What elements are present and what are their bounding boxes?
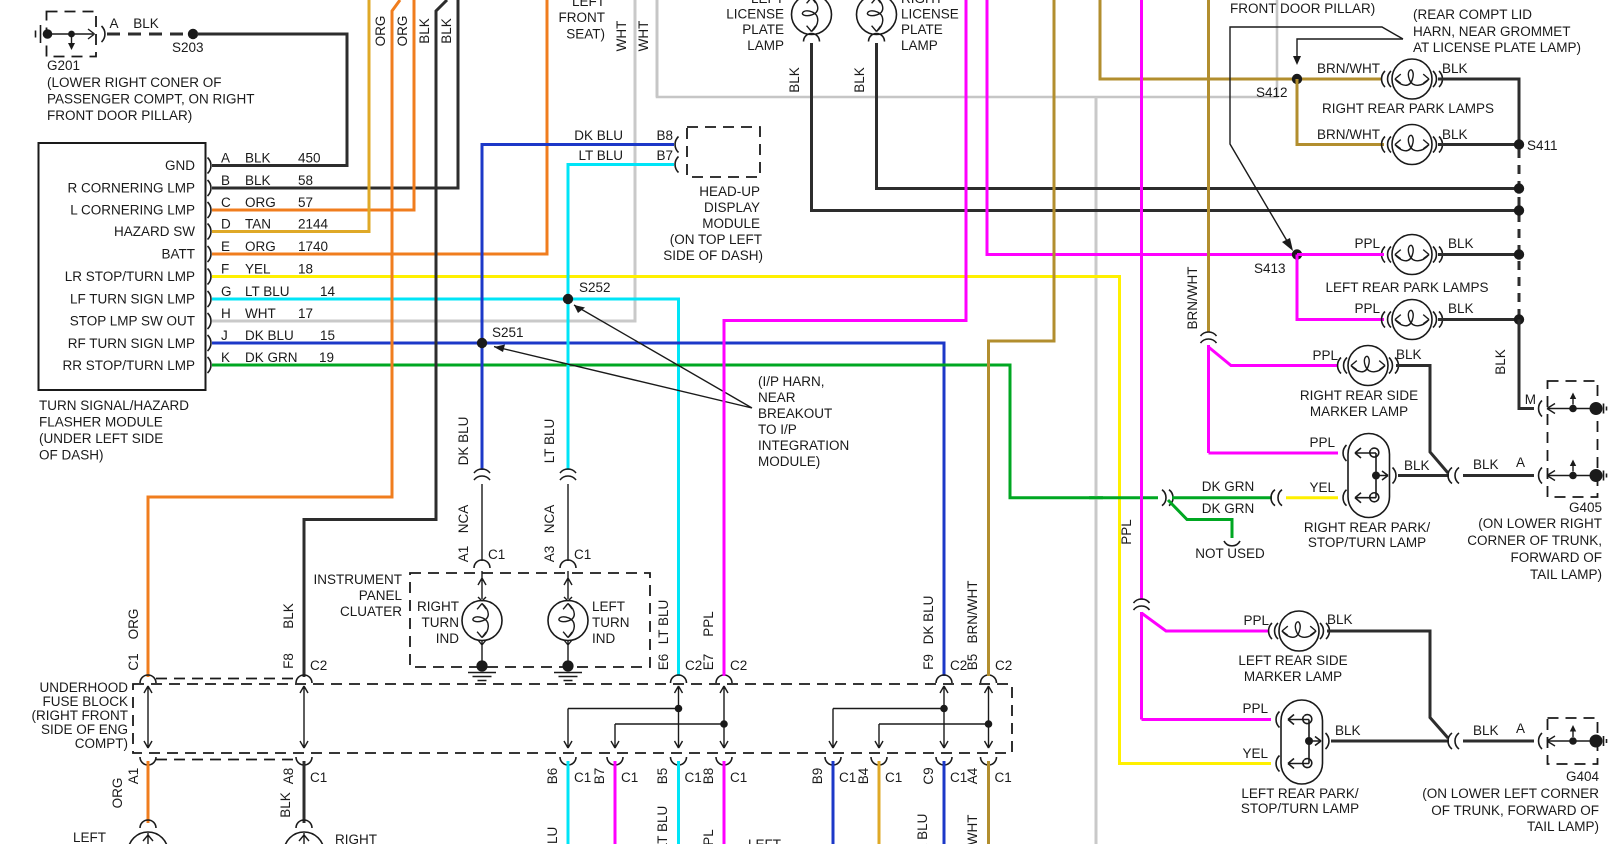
pin B	[208, 173, 314, 196]
wire TAN 2144 (pin D)	[212, 0, 369, 232]
wire PPL (to E7 via jog)	[724, 0, 966, 676]
svg-text:BRN/WHT: BRN/WHT	[965, 581, 980, 644]
svg-text:B7: B7	[656, 148, 673, 163]
svg-text:ORG: ORG	[245, 195, 276, 210]
wire ORG (underhood C1 feed)	[148, 0, 400, 677]
wire BLK (lamp to G404 A)	[1331, 723, 1449, 741]
ground G405	[1467, 381, 1606, 582]
lamp left rear side marker	[1238, 611, 1352, 684]
pin E7 C2	[701, 611, 747, 683]
svg-text:A8: A8	[281, 768, 296, 785]
svg-text:M: M	[1525, 392, 1536, 407]
instrument panel cluster box	[314, 572, 651, 667]
svg-text:PPL: PPL	[1354, 236, 1380, 251]
svg-text:BLK: BLK	[1404, 458, 1430, 473]
pin B5 C2	[965, 581, 1012, 684]
wire A BLK (G201 to S203, dashed)	[107, 16, 188, 34]
svg-text:LEFT: LEFT	[592, 599, 625, 614]
svg-text:RIGHT REAR PARK LAMPS: RIGHT REAR PARK LAMPS	[1322, 101, 1494, 116]
wire BLK (S411 ground chain, dashed)	[1518, 149, 1521, 317]
wire crossing overlays	[628, 275, 1103, 278]
wire BLK (lamp1 to S411)	[1438, 79, 1519, 141]
junction dots inside fuse block	[675, 705, 683, 713]
wire YEL (to lamp)	[1286, 496, 1338, 499]
wire DK GRN (not used branch)	[1168, 500, 1232, 538]
ground (right turn ind)	[468, 660, 496, 680]
svg-text:PPL: PPL	[701, 829, 716, 844]
lamp right license plate	[852, 0, 959, 93]
wire DK GRN 19 (pin K)	[212, 365, 1158, 498]
svg-text:C1: C1	[126, 653, 141, 670]
svg-text:F8: F8	[281, 653, 296, 669]
svg-text:A1: A1	[126, 768, 141, 785]
svg-text:BLK: BLK	[1327, 612, 1353, 627]
wire PPL (to left rear side marker)	[1142, 612, 1270, 720]
svg-text:LICENSE: LICENSE	[901, 7, 959, 22]
svg-text:ORG: ORG	[110, 778, 125, 809]
svg-text:COMPT): COMPT)	[75, 736, 128, 751]
pin B8 C1 bottom	[701, 757, 747, 844]
svg-text:PPL: PPL	[1312, 348, 1338, 363]
svg-text:ORG: ORG	[373, 16, 388, 47]
wire DK GRN (continue)	[1172, 496, 1272, 499]
svg-text:RF TURN SIGN LMP: RF TURN SIGN LMP	[68, 336, 195, 351]
svg-text:DK BLU: DK BLU	[456, 417, 471, 466]
wire BLK (to right park lamp)	[303, 761, 306, 823]
svg-text:STOP LMP SW OUT: STOP LMP SW OUT	[70, 314, 195, 329]
svg-text:E6: E6	[656, 654, 671, 671]
underhood fuse block	[32, 680, 1013, 753]
svg-text:C1: C1	[621, 770, 638, 785]
junction (left license BLK)	[1514, 205, 1524, 215]
svg-text:G405: G405	[1569, 500, 1602, 515]
svg-text:B7: B7	[592, 768, 607, 785]
svg-text:LT BLU: LT BLU	[245, 284, 290, 299]
svg-text:(RIGHT FRONT: (RIGHT FRONT	[32, 708, 129, 723]
svg-text:PPL: PPL	[1309, 435, 1335, 450]
pin E	[208, 239, 329, 262]
svg-text:FLASHER MODULE: FLASHER MODULE	[39, 415, 163, 430]
wire BLK (side marker to junction)	[1327, 631, 1448, 738]
lamp left rear park/stop/turn	[1241, 700, 1359, 816]
wire ORG (to left park lamp)	[147, 761, 150, 823]
inline break (LT BLU to NCA)	[560, 469, 576, 480]
svg-text:TAIL LAMP): TAIL LAMP)	[1527, 819, 1599, 834]
wire PPL (to right rear park/stop/turn)	[1209, 452, 1339, 455]
inline break (BRN/WHT to PPL rear)	[1201, 332, 1217, 343]
wire PPL B7	[614, 761, 617, 844]
lamp left rear park 2	[1354, 300, 1473, 340]
svg-text:A3: A3	[542, 546, 557, 563]
pin H	[208, 306, 314, 329]
svg-text:SIDE OF DASH): SIDE OF DASH)	[663, 248, 763, 263]
wire DK BLU 15 (pin J)	[212, 343, 944, 676]
svg-text:FRONT: FRONT	[559, 10, 606, 25]
svg-text:LT BLU: LT BLU	[545, 827, 560, 844]
ground G201	[36, 12, 255, 124]
wire PPL (to left rear park/stop/turn)	[1142, 718, 1272, 721]
svg-text:OF TRUNK, FORWARD OF: OF TRUNK, FORWARD OF	[1431, 803, 1599, 818]
svg-text:DK BLU: DK BLU	[245, 328, 294, 343]
svg-text:MARKER LAMP: MARKER LAMP	[1310, 404, 1408, 419]
svg-text:BLK: BLK	[245, 151, 271, 166]
svg-text:B5: B5	[965, 654, 980, 671]
svg-text:R CORNERING LMP: R CORNERING LMP	[67, 181, 195, 196]
svg-text:HEAD-UP: HEAD-UP	[699, 184, 760, 199]
svg-text:BLK: BLK	[417, 18, 432, 44]
wire BLK 450 (S203 to pin A)	[197, 34, 347, 166]
pin A	[208, 151, 321, 174]
callout (rear compt lid harn, near grommet at license plate lamp)	[1230, 7, 1581, 251]
svg-text:C: C	[221, 195, 231, 210]
wire BRN/WHT (S412 to lamp2)	[1297, 79, 1384, 145]
wire PPL (to S413)	[987, 0, 1293, 255]
svg-text:C1: C1	[574, 770, 591, 785]
pin D	[208, 217, 329, 240]
svg-text:OF DASH): OF DASH)	[39, 448, 104, 463]
svg-text:RR STOP/TURN LMP: RR STOP/TURN LMP	[62, 358, 195, 373]
svg-text:LAMP: LAMP	[901, 38, 938, 53]
not used terminal	[1195, 541, 1265, 561]
svg-text:DK BLU: DK BLU	[574, 128, 623, 143]
lamp right rear park/stop/turn	[1304, 434, 1431, 551]
svg-text:RIGHT: RIGHT	[901, 0, 943, 6]
svg-text:LEFT REAR SIDE: LEFT REAR SIDE	[1238, 653, 1347, 668]
wire BRN/WHT (to S412)	[1100, 0, 1382, 79]
svg-text:PPL: PPL	[1119, 519, 1134, 545]
svg-text:ORG: ORG	[126, 609, 141, 640]
lamp right turn indicator	[417, 571, 502, 662]
svg-text:PPL: PPL	[701, 611, 716, 637]
svg-text:TURN SIGNAL/HAZARD: TURN SIGNAL/HAZARD	[39, 398, 189, 413]
svg-text:1740: 1740	[298, 239, 328, 254]
svg-text:RIGHT REAR SIDE: RIGHT REAR SIDE	[1300, 388, 1418, 403]
pin B6 C1 bottom	[545, 757, 591, 844]
svg-text:LT BLU: LT BLU	[655, 806, 670, 844]
wire DK BLU C9	[943, 761, 946, 844]
lamp left front park (cut)	[73, 820, 168, 844]
svg-text:B8: B8	[701, 768, 716, 785]
svg-text:YEL: YEL	[1309, 480, 1335, 495]
svg-text:E7: E7	[701, 654, 716, 671]
svg-text:ORG: ORG	[395, 16, 410, 47]
svg-text:LF TURN SIGN LMP: LF TURN SIGN LMP	[70, 292, 195, 307]
svg-text:LAMP: LAMP	[747, 38, 784, 53]
svg-text:NEAR: NEAR	[758, 390, 796, 405]
inline break (BLK)	[1448, 733, 1459, 749]
wire PPL B8	[723, 761, 726, 844]
svg-text:G: G	[221, 284, 232, 299]
svg-text:A: A	[109, 16, 118, 31]
connector box (left front seat)	[559, 0, 1278, 97]
svg-text:(REAR COMPT LID: (REAR COMPT LID	[1413, 7, 1532, 22]
wire WHT (drop from connector box)	[1095, 97, 1098, 844]
svg-text:S252: S252	[579, 280, 611, 295]
svg-text:C1: C1	[839, 770, 856, 785]
svg-text:LICENSE: LICENSE	[726, 7, 784, 22]
svg-text:LEFT: LEFT	[748, 837, 781, 844]
splice S251	[477, 325, 524, 348]
svg-text:IND: IND	[592, 631, 616, 646]
svg-text:WHT: WHT	[636, 21, 651, 52]
svg-text:A1: A1	[456, 546, 471, 563]
wire PPL (to right rear side marker)	[1209, 345, 1339, 453]
svg-text:FRONT DOOR PILLAR): FRONT DOOR PILLAR)	[47, 108, 192, 123]
svg-text:YEL: YEL	[245, 262, 271, 277]
pin C	[208, 195, 314, 218]
svg-text:57: 57	[298, 195, 313, 210]
junction	[1514, 249, 1524, 259]
svg-text:PPL: PPL	[1243, 613, 1269, 628]
svg-text:19: 19	[319, 350, 334, 365]
svg-text:NCA: NCA	[542, 505, 557, 534]
lamp right rear park 1	[1317, 59, 1468, 99]
lamp right front park (cut)	[284, 820, 377, 844]
svg-text:BLK: BLK	[439, 18, 454, 44]
svg-text:HARN, NEAR GROMMET: HARN, NEAR GROMMET	[1413, 24, 1571, 39]
svg-text:C1: C1	[730, 770, 747, 785]
svg-text:BLK: BLK	[852, 67, 867, 93]
pin B9 C1 bottom	[810, 757, 856, 785]
svg-text:PLATE: PLATE	[901, 22, 943, 37]
pin B7 C1 bottom	[592, 757, 638, 785]
svg-text:BLK: BLK	[1442, 127, 1468, 142]
wire BRN/WHT (rear harness)	[1185, 0, 1209, 332]
svg-text:LEFT: LEFT	[751, 0, 784, 6]
svg-text:C2: C2	[995, 658, 1012, 673]
svg-text:HAZARD SW: HAZARD SW	[114, 224, 195, 239]
junction (right license BLK)	[1514, 183, 1524, 193]
svg-text:LR STOP/TURN LMP: LR STOP/TURN LMP	[65, 269, 195, 284]
svg-text:BLK: BLK	[1335, 723, 1361, 738]
ground (left turn ind)	[554, 660, 582, 680]
splice S203	[172, 29, 204, 55]
svg-text:TURN: TURN	[422, 615, 460, 630]
lamp right rear park 2	[1317, 125, 1468, 165]
wire BLK (to G404 pin A)	[1463, 721, 1534, 741]
wire BLK (chain to G405 M)	[1493, 320, 1534, 409]
lamp left license plate	[726, 0, 831, 93]
inline break (DK GRN to YEL)	[1271, 490, 1282, 506]
pin B4 C1 bottom	[856, 757, 902, 785]
wire WHT 17 (pin H)	[212, 0, 635, 321]
lamp left turn indicator	[548, 571, 630, 662]
pin B5 C1 bottom	[655, 757, 702, 844]
svg-text:RIGHT REAR PARK/: RIGHT REAR PARK/	[1304, 520, 1431, 535]
svg-text:BREAKOUT: BREAKOUT	[758, 406, 832, 421]
wire BRN/WHT (to B5 via jog)	[989, 0, 1055, 676]
svg-text:(UNDER LEFT SIDE: (UNDER LEFT SIDE	[39, 431, 163, 446]
svg-text:BLK: BLK	[1473, 457, 1499, 472]
pin C1 top	[126, 609, 156, 683]
splice S252	[563, 280, 611, 304]
svg-text:NOT USED: NOT USED	[1195, 546, 1265, 561]
svg-text:G201: G201	[47, 58, 80, 73]
svg-text:LEFT: LEFT	[572, 0, 605, 9]
wire DK BLU (B8 circuit)	[482, 145, 674, 471]
svg-text:B9: B9	[810, 768, 825, 785]
svg-text:RIGHT: RIGHT	[417, 599, 459, 614]
svg-text:E: E	[221, 239, 230, 254]
svg-text:2144: 2144	[298, 217, 329, 232]
pin A1 bottom	[110, 757, 156, 808]
pin E6 C2	[656, 600, 702, 683]
svg-text:A: A	[1516, 721, 1525, 736]
svg-text:A: A	[1516, 455, 1525, 470]
wire PPL (S413 continue to lamp1)	[1297, 253, 1384, 256]
svg-text:C1: C1	[574, 547, 591, 562]
svg-text:SEAT): SEAT)	[566, 27, 605, 42]
wire BLK 58 (pin B)	[212, 0, 458, 188]
svg-text:STOP/TURN LAMP: STOP/TURN LAMP	[1241, 801, 1359, 816]
svg-text:MODULE): MODULE)	[758, 454, 820, 469]
svg-text:G404: G404	[1566, 769, 1600, 784]
svg-text:LEFT: LEFT	[73, 830, 106, 844]
svg-text:WHT: WHT	[614, 21, 629, 52]
svg-text:H: H	[221, 306, 231, 321]
svg-text:PASSENGER COMPT, ON RIGHT: PASSENGER COMPT, ON RIGHT	[47, 92, 255, 107]
wire DK BLU B9	[832, 761, 835, 844]
svg-text:B5: B5	[655, 768, 670, 785]
pin A4 C1 bottom	[965, 757, 1012, 844]
svg-text:DK BLU: DK BLU	[915, 814, 930, 844]
wire LT BLU B6	[567, 761, 570, 844]
svg-text:(ON TOP LEFT: (ON TOP LEFT	[670, 232, 762, 247]
svg-text:A4: A4	[965, 767, 980, 784]
svg-text:NCA: NCA	[456, 505, 471, 534]
turn signal/hazard flasher module U	[39, 143, 206, 463]
pin C9 C1 bottom	[915, 757, 967, 844]
svg-text:BLK: BLK	[787, 67, 802, 93]
svg-text:INSTRUMENT: INSTRUMENT	[314, 572, 403, 587]
svg-text:BLK: BLK	[278, 792, 293, 818]
wire BLK (lamp to G405 A)	[1398, 458, 1449, 476]
svg-text:C1: C1	[488, 547, 505, 562]
wire BLK (to G405 pin A)	[1463, 455, 1534, 476]
svg-text:B6: B6	[545, 768, 560, 785]
inline break (PPL left rear)	[1134, 599, 1150, 610]
wire BLK (side marker to junction)	[1396, 366, 1448, 474]
svg-text:DK GRN: DK GRN	[245, 350, 298, 365]
wire PPL (main rear feed)	[1140, 0, 1143, 600]
wire BLK (lamp to chain)	[1438, 318, 1515, 321]
svg-text:FUSE BLOCK: FUSE BLOCK	[42, 694, 128, 709]
svg-text:FORWARD OF: FORWARD OF	[1511, 550, 1603, 565]
inline break (DK BLU to NCA)	[474, 469, 490, 480]
svg-text:MODULE: MODULE	[702, 216, 760, 231]
svg-text:MARKER LAMP: MARKER LAMP	[1244, 669, 1342, 684]
svg-text:ORG: ORG	[245, 239, 276, 254]
svg-text:K: K	[221, 350, 230, 365]
svg-text:S411: S411	[1527, 138, 1558, 153]
svg-text:DK BLU: DK BLU	[921, 596, 936, 645]
wire BLK (left license lamp to S411 chain)	[812, 43, 1520, 211]
svg-text:BLK: BLK	[1396, 347, 1422, 362]
svg-text:D: D	[221, 217, 231, 232]
svg-text:LT BLU: LT BLU	[578, 148, 623, 163]
pin K	[208, 350, 335, 373]
svg-text:AT LICENSE PLATE LAMP): AT LICENSE PLATE LAMP)	[1413, 40, 1581, 55]
svg-text:C9: C9	[921, 767, 936, 784]
lamp right rear side marker	[1300, 346, 1422, 420]
svg-text:PPL: PPL	[1354, 301, 1380, 316]
svg-text:B4: B4	[856, 767, 871, 784]
svg-text:TAN: TAN	[245, 217, 271, 232]
svg-text:BLK: BLK	[1448, 236, 1474, 251]
svg-text:TO I/P: TO I/P	[758, 422, 797, 437]
svg-text:S413: S413	[1254, 261, 1286, 276]
wire LT BLU B5	[677, 761, 680, 844]
svg-text:(ON LOWER RIGHT: (ON LOWER RIGHT	[1478, 516, 1602, 531]
svg-text:CORNER OF TRUNK,: CORNER OF TRUNK,	[1467, 533, 1602, 548]
svg-text:BLK: BLK	[1473, 723, 1499, 738]
svg-text:18: 18	[298, 262, 313, 277]
wire BLK (right license lamp to S411 chain)	[877, 43, 1520, 189]
svg-text:S203: S203	[172, 40, 204, 55]
wire ORG 57 (pin C)	[212, 0, 414, 210]
svg-text:17: 17	[298, 306, 313, 321]
svg-text:DK GRN: DK GRN	[1202, 501, 1255, 516]
svg-text:(I/P HARN,: (I/P HARN,	[758, 374, 825, 389]
wire WHT (into seat connector)	[656, 0, 659, 97]
inline break (DK GRN)	[1162, 490, 1173, 506]
svg-text:GND: GND	[165, 158, 195, 173]
wire NCA A1	[456, 484, 505, 568]
svg-text:L CORNERING LMP: L CORNERING LMP	[70, 203, 195, 218]
svg-text:IND: IND	[436, 631, 460, 646]
wire LT BLU 14 (pin G)	[212, 299, 679, 676]
svg-text:PPL: PPL	[1242, 701, 1268, 716]
svg-text:TAIL LAMP): TAIL LAMP)	[1530, 567, 1602, 582]
pin A8 C1 bottom	[278, 757, 327, 818]
splice S411	[1514, 138, 1558, 153]
svg-text:B8: B8	[656, 128, 673, 143]
svg-text:(ON LOWER LEFT CORNER: (ON LOWER LEFT CORNER	[1422, 786, 1599, 801]
lamp left rear park 1	[1354, 235, 1473, 275]
svg-text:BLK: BLK	[281, 603, 296, 629]
svg-text:15: 15	[320, 328, 335, 343]
svg-text:FRONT DOOR PILLAR): FRONT DOOR PILLAR)	[1230, 1, 1375, 16]
callout (I/P harn, near breakout to I/P integration module)	[494, 305, 849, 469]
svg-text:F9: F9	[921, 654, 936, 670]
svg-text:C2: C2	[685, 658, 702, 673]
svg-text:LEFT REAR PARK/: LEFT REAR PARK/	[1241, 786, 1359, 801]
svg-text:DK GRN: DK GRN	[1202, 479, 1255, 494]
svg-text:F: F	[221, 262, 229, 277]
svg-text:UNDERHOOD: UNDERHOOD	[39, 680, 128, 695]
svg-text:58: 58	[298, 173, 313, 188]
wire BLK (lamp to chain)	[1438, 253, 1515, 256]
svg-text:BRN/WHT: BRN/WHT	[1317, 61, 1380, 76]
wire ORG 1740 (pin E)	[212, 0, 547, 254]
svg-text:BLK: BLK	[1442, 61, 1468, 76]
svg-text:BRN/WHT: BRN/WHT	[965, 815, 980, 844]
svg-text:DISPLAY: DISPLAY	[704, 200, 760, 215]
svg-text:S251: S251	[492, 325, 524, 340]
svg-text:INTEGRATION: INTEGRATION	[758, 438, 849, 453]
pin F	[208, 262, 314, 285]
pin F8 C2	[281, 603, 327, 683]
wire TAN B4	[878, 761, 881, 844]
svg-text:BATT: BATT	[162, 247, 196, 262]
svg-text:450: 450	[298, 151, 321, 166]
svg-text:B: B	[221, 173, 230, 188]
fuse block internal links	[144, 686, 993, 748]
wire YEL 18 (pin F)	[212, 277, 1271, 764]
svg-text:C2: C2	[730, 658, 747, 673]
head-up display module	[574, 127, 763, 263]
splice S413	[1254, 249, 1302, 276]
